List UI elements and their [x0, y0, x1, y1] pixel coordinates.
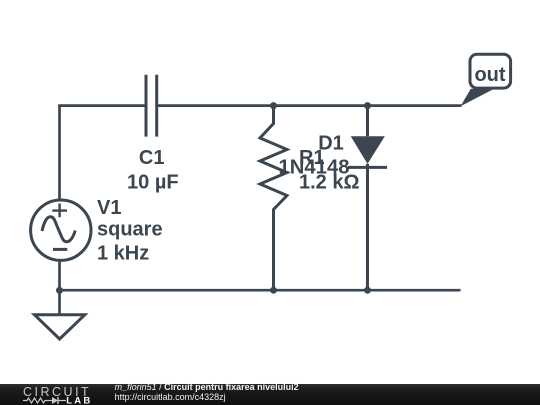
node junction bottom at V1: [56, 287, 63, 294]
ground: [35, 315, 85, 339]
node junction bottom at R1: [270, 287, 277, 294]
credit text: [115, 382, 299, 402]
net flag out box: [461, 54, 511, 106]
svg-text:10 µF: 10 µF: [127, 171, 179, 193]
svg-text:square: square: [97, 218, 163, 240]
node junction bottom at D1: [364, 287, 371, 294]
node junction top at R1: [270, 102, 277, 109]
wire V1 bottom lead: [58, 260, 61, 290]
svg-text:V1: V1: [97, 197, 121, 219]
node junction top at D1: [364, 102, 371, 109]
diode D1: [348, 106, 387, 291]
svg-text:out: out: [474, 64, 505, 86]
capacitor C1: [146, 75, 157, 137]
wire top rail from C1 to out flag: [157, 104, 462, 107]
CircuitLab logo: [22, 385, 97, 405]
wire V1 top lead to top rail: [58, 106, 61, 201]
svg-text:D1: D1: [318, 132, 344, 154]
wire bottom rail: [60, 289, 461, 292]
voltage source V1: [31, 200, 91, 260]
svg-text:1 kHz: 1 kHz: [97, 242, 149, 264]
svg-text:C1: C1: [139, 147, 165, 169]
footer bar: [0, 384, 540, 405]
wire ground stub: [58, 290, 61, 315]
resistor R1: [260, 106, 287, 291]
svg-text:LAB: LAB: [66, 396, 92, 405]
wire top rail left segment to C1: [58, 104, 146, 107]
svg-text:1N4148: 1N4148: [279, 157, 350, 179]
